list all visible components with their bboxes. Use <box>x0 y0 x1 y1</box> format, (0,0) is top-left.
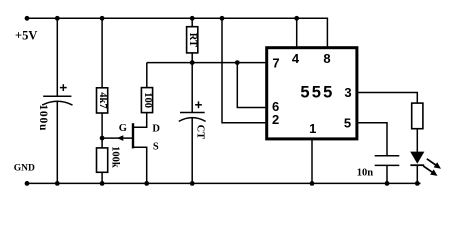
node: junction dot C1 bottom on ground rail <box>55 181 60 186</box>
resistor RT body <box>187 27 198 53</box>
svg-text:RT: RT <box>187 33 198 47</box>
svg-text:4k7: 4k7 <box>97 92 108 108</box>
wire: gate wire from divider to Q1 <box>102 137 132 139</box>
svg-text:CT: CT <box>194 125 205 140</box>
label + polarity of C1 <box>60 84 67 91</box>
wire: CT top lead <box>191 63 193 113</box>
wire: ground bottom rail <box>27 182 421 184</box>
node: junction dot CT bottom on ground rail <box>190 181 195 186</box>
wire: pin 4 lead from rail <box>296 18 298 46</box>
wire: pin 1 lead to ground rail <box>311 140 313 184</box>
transistor Q1 channel bar <box>132 123 134 148</box>
LED D1 light arrow 1 <box>427 159 441 169</box>
svg-text:D: D <box>152 124 160 135</box>
wire: R3 top lead corner to pin7 net <box>146 63 148 88</box>
node: junction dot source on ground rail <box>144 181 149 186</box>
wire: C2 bottom lead to ground rail <box>386 165 388 183</box>
node: junction dot R2 bottom on ground rail <box>100 181 105 186</box>
node: junction dot pin1 on ground rail <box>310 181 315 186</box>
capacitor CT electrolytic plates <box>179 113 206 122</box>
wire: pin 7 net horizontal to U1 <box>147 62 267 64</box>
wire: +5V top supply rail <box>27 17 328 19</box>
node: junction dot C1 top on +5V rail <box>55 16 60 21</box>
node: gate node junction dot <box>100 136 105 141</box>
node: junction dot LED on ground rail <box>415 181 420 186</box>
node: +5V terminal dot <box>25 16 30 21</box>
wire: RT bottom lead to pin7 net <box>191 53 193 63</box>
node: junction dot R1 top on +5V rail <box>100 16 105 21</box>
node: GND terminal dot <box>25 181 30 186</box>
wire: Q1 source lead down to ground rail <box>133 147 147 183</box>
node: junction dot RT top on +5V rail <box>190 16 195 21</box>
svg-text:555: 555 <box>300 84 334 102</box>
wire: R2 bottom lead to ground rail <box>101 172 103 183</box>
wire: C1 top lead from rail <box>56 18 58 96</box>
wire: LED lead to ground rail <box>416 165 418 183</box>
capacitor C1 100u electrolytic plates <box>42 96 72 105</box>
svg-text:4: 4 <box>292 51 300 66</box>
svg-text:G: G <box>119 123 127 134</box>
node: junction dot pin4 on +5V rail <box>294 16 299 21</box>
svg-text:3: 3 <box>344 85 351 100</box>
resistor R4 LED series body <box>412 103 423 129</box>
wire: pin 2 branch from +5V rail <box>222 18 267 122</box>
wire: pin 3 output wire to R4 <box>357 93 417 103</box>
wire: C1 bottom lead to ground rail <box>56 101 58 183</box>
LED D1 light arrow 2 <box>423 166 437 176</box>
wire: pin 5 wire to C2 <box>357 123 387 156</box>
svg-text:+5V: +5V <box>15 29 37 43</box>
resistor R3 100 body <box>141 88 152 113</box>
wire: RT top lead from rail <box>191 18 193 26</box>
node: junction dot RT/CT on pin7 net <box>190 60 195 65</box>
wire: pin 6 branch from pin7 net <box>237 63 267 108</box>
svg-text:100u: 100u <box>37 104 49 131</box>
svg-text:10n: 10n <box>357 167 374 178</box>
wire: CT bottom lead to ground rail <box>191 118 193 184</box>
LED D1 anode triangle <box>410 152 424 164</box>
svg-text:1: 1 <box>309 121 316 136</box>
op-amp U1 555 timer body <box>267 48 357 139</box>
wire: pin 8 lead from rail corner <box>326 18 328 46</box>
capacitor C2 10n plates <box>375 156 400 166</box>
svg-text:2: 2 <box>272 112 279 127</box>
svg-text:5: 5 <box>344 115 351 130</box>
wire: R4 bottom lead to LED <box>416 129 418 152</box>
label + polarity of CT <box>195 101 202 108</box>
node: junction dot pin6 branch on pin7 net <box>235 60 240 65</box>
wire: Q1 drain lead up to R3 <box>133 113 147 128</box>
svg-text:8: 8 <box>323 51 330 66</box>
svg-text:7: 7 <box>272 55 279 70</box>
wire: divider middle lead R1 to R2 <box>101 113 103 148</box>
transistor Q1 gate arrow <box>117 135 124 141</box>
wire: R1 top lead from rail <box>101 18 103 87</box>
svg-text:100: 100 <box>142 92 153 108</box>
svg-text:100k: 100k <box>110 146 121 168</box>
resistor R1 4k7 body <box>97 88 108 113</box>
svg-text:S: S <box>153 142 159 153</box>
svg-text:GND: GND <box>14 164 35 174</box>
LED D1 cathode bar <box>410 164 424 166</box>
node: junction dot C2 on ground rail <box>385 181 390 186</box>
resistor R2 100k body <box>97 148 108 172</box>
node: junction dot pin2 branch on +5V rail <box>220 16 225 21</box>
